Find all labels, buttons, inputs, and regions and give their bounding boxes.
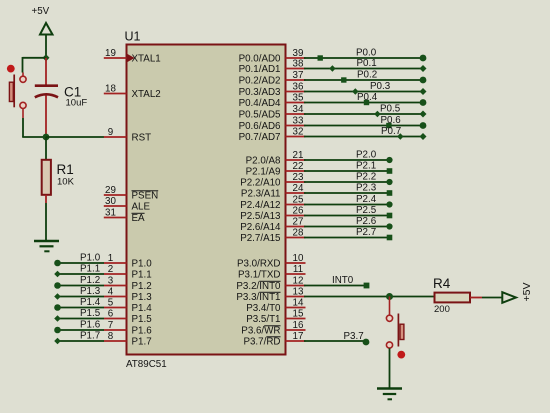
wire P2.0 <box>304 157 393 163</box>
svg-text:17: 17 <box>293 331 304 342</box>
resistor R4 <box>435 293 483 303</box>
wire P3.3 node to SW2 <box>389 297 391 316</box>
pin 4 stub (left) <box>104 286 127 297</box>
pin 36 stub (right) <box>286 81 306 92</box>
wire P2.6 <box>304 223 393 229</box>
XTAL1 clock input arrow <box>127 54 135 62</box>
net label P0.4 <box>357 92 378 103</box>
svg-text:34: 34 <box>293 104 304 115</box>
net label P0.7 <box>381 126 401 137</box>
label U1 <box>125 30 141 44</box>
svg-text:PSEN: PSEN <box>132 190 159 201</box>
svg-text:21: 21 <box>293 150 304 161</box>
svg-text:P3.7: P3.7 <box>344 331 364 342</box>
net label P2.6 <box>356 216 377 227</box>
svg-text:XTAL1: XTAL1 <box>132 53 161 64</box>
svg-text:7: 7 <box>108 320 113 331</box>
svg-text:R4: R4 <box>433 276 451 291</box>
wire P0.6 <box>304 122 426 129</box>
svg-text:8: 8 <box>108 331 114 342</box>
net label P2.2 <box>356 172 376 183</box>
svg-text:RST: RST <box>132 132 152 143</box>
svg-text:3: 3 <box>108 275 114 286</box>
value 10uF <box>66 97 88 108</box>
svg-text:P1.5: P1.5 <box>80 308 101 319</box>
svg-text:13: 13 <box>293 286 304 297</box>
svg-text:P1.6: P1.6 <box>132 325 153 336</box>
svg-text:P1.5: P1.5 <box>132 314 153 325</box>
pin 16 stub (right) <box>286 320 306 331</box>
wire P3.3 to R4 <box>304 296 434 298</box>
svg-text:11: 11 <box>293 264 303 275</box>
net label P2.1 <box>356 161 376 172</box>
svg-text:24: 24 <box>293 183 304 194</box>
svg-text:10: 10 <box>293 253 304 264</box>
wire +5V node to reset button <box>23 57 47 73</box>
svg-text:P2.7/A15: P2.7/A15 <box>240 233 281 244</box>
svg-text:28: 28 <box>293 227 304 238</box>
wire SW1 to RST node <box>22 118 46 137</box>
wire P1.1 <box>54 271 104 278</box>
wire P0.5 <box>304 111 427 118</box>
svg-text:P1.0: P1.0 <box>80 253 101 264</box>
svg-text:23: 23 <box>293 172 304 183</box>
wire P0.2 <box>304 77 426 84</box>
net label P0.6 <box>381 115 402 126</box>
net label P1.1 <box>80 264 100 275</box>
svg-text:P1.1: P1.1 <box>80 264 100 275</box>
svg-text:P0.5/AD5: P0.5/AD5 <box>239 109 281 120</box>
U1 right pin names <box>236 53 281 347</box>
svg-text:38: 38 <box>293 58 304 69</box>
pin 24 stub (right) <box>286 183 306 194</box>
net label INT0 <box>332 275 354 286</box>
svg-text:2: 2 <box>108 264 113 275</box>
svg-text:AT89C51: AT89C51 <box>126 359 167 370</box>
net label P1.0 <box>80 253 101 264</box>
pushbutton SW2 <box>386 314 404 349</box>
svg-text:36: 36 <box>293 81 304 92</box>
svg-text:16: 16 <box>293 320 304 331</box>
wire SW2 to ground <box>389 348 391 388</box>
svg-text:P3.6/WR: P3.6/WR <box>241 325 280 336</box>
label AT89C51 <box>126 359 167 370</box>
svg-text:19: 19 <box>105 48 116 59</box>
pin 1 stub (left) <box>104 253 127 264</box>
svg-text:P0.4: P0.4 <box>357 92 378 103</box>
svg-text:P0.3: P0.3 <box>370 81 391 92</box>
svg-text:P2.1: P2.1 <box>356 161 376 172</box>
pin 19 stub (left) <box>104 48 127 59</box>
svg-text:4: 4 <box>108 286 114 297</box>
svg-text:EA: EA <box>132 213 146 224</box>
svg-text:ALE: ALE <box>132 201 151 212</box>
value 200 <box>434 304 450 315</box>
junction RST node <box>43 134 50 141</box>
actuator dot SW1 <box>7 65 15 73</box>
wire P1.7 <box>54 338 104 345</box>
net label P0.5 <box>380 104 401 115</box>
svg-text:10K: 10K <box>57 177 75 188</box>
ground (right) <box>377 389 402 400</box>
svg-text:P0.2/AD2: P0.2/AD2 <box>239 75 281 86</box>
svg-text:XTAL2: XTAL2 <box>132 89 161 100</box>
wire P2.3 <box>304 190 392 196</box>
label R1 <box>57 162 74 177</box>
svg-text:6: 6 <box>108 308 114 319</box>
svg-text:P2.5: P2.5 <box>356 205 377 216</box>
svg-text:30: 30 <box>105 196 116 207</box>
pin 27 stub (right) <box>286 216 306 227</box>
net label P1.4 <box>80 297 101 308</box>
svg-text:P2.4/A12: P2.4/A12 <box>240 200 280 211</box>
svg-text:22: 22 <box>293 161 304 172</box>
svg-text:31: 31 <box>105 207 116 218</box>
pin 10 stub (right) <box>286 253 306 264</box>
actuator dot SW2 <box>397 351 405 359</box>
pin 11 stub (right) <box>286 264 306 275</box>
pushbutton SW1 (reset) <box>9 73 26 119</box>
svg-text:P2.3/A11: P2.3/A11 <box>241 188 281 199</box>
svg-text:18: 18 <box>105 83 116 94</box>
svg-text:P2.0: P2.0 <box>356 150 377 161</box>
svg-text:29: 29 <box>105 185 116 196</box>
svg-text:P1.6: P1.6 <box>80 320 101 331</box>
svg-text:P0.0/AD0: P0.0/AD0 <box>239 53 281 64</box>
svg-text:P1.7: P1.7 <box>80 331 100 342</box>
wire P2.5 <box>304 213 392 219</box>
svg-text:P1.2: P1.2 <box>80 275 100 286</box>
wire P0.0 <box>304 55 426 62</box>
wire P3.7 (pin 17) <box>304 339 369 346</box>
svg-text:33: 33 <box>293 115 304 126</box>
U1 left pin names <box>132 53 161 347</box>
pin 26 stub (right) <box>286 205 306 216</box>
svg-text:26: 26 <box>293 205 304 216</box>
pin 15 stub (right) <box>286 308 306 319</box>
pin 37 stub (right) <box>286 70 306 81</box>
net label P1.2 <box>80 275 100 286</box>
capacitor C1 <box>35 58 58 137</box>
svg-text:P0.5: P0.5 <box>380 104 401 115</box>
net label P2.7 <box>356 227 376 238</box>
svg-text:35: 35 <box>293 92 304 103</box>
pin 39 stub (right) <box>286 48 306 59</box>
pin 6 stub (left) <box>104 308 127 319</box>
svg-text:P1.1: P1.1 <box>132 269 152 280</box>
wire P1.6 <box>54 327 104 334</box>
pin 32 stub (right) <box>286 126 306 137</box>
svg-text:P2.2: P2.2 <box>356 172 376 183</box>
pin 34 stub (right) <box>286 104 306 115</box>
svg-text:P1.4: P1.4 <box>80 297 101 308</box>
pin 31 stub (left) <box>104 207 127 218</box>
pin 21 stub (right) <box>286 150 306 161</box>
svg-text:P1.3: P1.3 <box>80 286 101 297</box>
wire R4 to +5V arrow <box>482 297 502 299</box>
net label P1.6 <box>80 320 101 331</box>
svg-text:27: 27 <box>293 216 304 227</box>
svg-text:P0.6/AD6: P0.6/AD6 <box>239 121 281 132</box>
net label P1.5 <box>80 308 101 319</box>
svg-text:P1.3: P1.3 <box>132 292 153 303</box>
svg-text:P0.1: P0.1 <box>357 58 377 69</box>
wire P0.3 <box>304 88 427 95</box>
pin 30 stub (left) <box>104 196 127 207</box>
wire P1.4 <box>54 304 104 311</box>
svg-text:32: 32 <box>293 126 304 137</box>
svg-text:12: 12 <box>293 275 304 286</box>
pin 18 stub (left) <box>104 83 127 94</box>
resistor R1 <box>42 137 51 203</box>
net label P1.3 <box>80 286 101 297</box>
svg-text:37: 37 <box>293 70 304 81</box>
svg-text:P0.4/AD4: P0.4/AD4 <box>239 98 281 109</box>
label +5V (top left) <box>32 6 50 17</box>
svg-text:P0.0: P0.0 <box>356 48 377 59</box>
pin 3 stub (left) <box>104 275 127 286</box>
wire P0.1 <box>304 65 427 72</box>
svg-text:P3.2/INT0: P3.2/INT0 <box>236 281 281 292</box>
svg-text:P0.7/AD7: P0.7/AD7 <box>239 132 281 143</box>
pin 14 stub (right) <box>286 297 306 308</box>
svg-text:U1: U1 <box>125 30 141 44</box>
net label P3.7 <box>344 331 364 342</box>
svg-text:P3.7/RD: P3.7/RD <box>243 336 280 347</box>
pin 33 stub (right) <box>286 115 306 126</box>
svg-text:P3.3/INT1: P3.3/INT1 <box>236 292 280 303</box>
svg-text:P3.0/RXD: P3.0/RXD <box>237 258 281 269</box>
svg-text:P2.6/A14: P2.6/A14 <box>240 222 281 233</box>
svg-text:+5V: +5V <box>521 283 533 302</box>
wire P2.4 <box>304 201 393 207</box>
svg-text:P3.5/T1: P3.5/T1 <box>246 314 280 325</box>
pin 23 stub (right) <box>286 172 306 183</box>
value 10K <box>57 177 75 188</box>
svg-text:200: 200 <box>434 304 450 315</box>
svg-text:P3.1/TXD: P3.1/TXD <box>238 269 280 280</box>
svg-text:P1.4: P1.4 <box>132 303 153 314</box>
svg-text:P2.2/A10: P2.2/A10 <box>240 177 281 188</box>
ground (left) <box>34 241 59 251</box>
svg-text:P1.0: P1.0 <box>132 258 153 269</box>
IC U1 AT89C51 body <box>127 45 286 355</box>
svg-text:15: 15 <box>293 308 304 319</box>
svg-text:10uF: 10uF <box>66 97 88 108</box>
svg-text:9: 9 <box>108 127 113 138</box>
svg-text:R1: R1 <box>57 162 74 177</box>
wire P2.7 <box>304 235 392 241</box>
net label P2.5 <box>356 205 377 216</box>
net label P1.7 <box>80 331 100 342</box>
svg-text:P2.4: P2.4 <box>356 194 377 205</box>
svg-text:5: 5 <box>108 297 114 308</box>
wire P2.1 <box>304 168 392 174</box>
power +5V terminal (right) <box>502 292 516 303</box>
pin 13 stub (right) <box>286 286 306 297</box>
junction P3.3 node <box>386 293 393 300</box>
svg-text:P0.6: P0.6 <box>381 115 402 126</box>
wire P0.4 <box>304 99 426 106</box>
wire INT0 (pin 12) <box>304 283 369 289</box>
wire P1.3 <box>54 293 104 300</box>
pin 9 stub (left) <box>104 127 127 138</box>
pin 29 stub (left) <box>104 185 127 196</box>
label +5V (right) <box>521 283 533 302</box>
svg-text:+5V: +5V <box>32 6 50 17</box>
svg-text:P0.1/AD1: P0.1/AD1 <box>239 64 281 75</box>
pin 12 stub (right) <box>286 275 306 286</box>
label R4 <box>433 276 451 291</box>
svg-text:P0.7: P0.7 <box>381 126 401 137</box>
svg-text:P2.5/A13: P2.5/A13 <box>240 211 281 222</box>
svg-text:25: 25 <box>293 194 304 205</box>
pin 7 stub (left) <box>104 320 127 331</box>
svg-text:P2.3: P2.3 <box>356 183 377 194</box>
pin 22 stub (right) <box>286 161 306 172</box>
svg-text:P3.4/T0: P3.4/T0 <box>246 303 281 314</box>
power +5V terminal (top left) <box>40 23 53 58</box>
svg-text:P1.2: P1.2 <box>132 281 152 292</box>
pin 25 stub (right) <box>286 194 306 205</box>
svg-text:1: 1 <box>108 253 113 264</box>
svg-text:14: 14 <box>293 297 304 308</box>
svg-text:P1.7: P1.7 <box>132 336 152 347</box>
svg-text:P2.0/A8: P2.0/A8 <box>246 155 281 166</box>
svg-text:P0.2: P0.2 <box>357 70 377 81</box>
junction +5V node <box>43 54 50 61</box>
svg-text:P0.3/AD3: P0.3/AD3 <box>239 87 281 98</box>
wire P1.2 <box>54 282 104 289</box>
wire P1.0 <box>54 260 104 267</box>
svg-text:INT0: INT0 <box>332 275 354 286</box>
pin 35 stub (right) <box>286 92 306 103</box>
pin 17 stub (right) <box>286 331 306 342</box>
pin 28 stub (right) <box>286 227 306 238</box>
svg-text:P2.7: P2.7 <box>356 227 376 238</box>
svg-text:P2.1/A9: P2.1/A9 <box>246 166 281 177</box>
label C1 <box>64 85 81 100</box>
net label P2.3 <box>356 183 377 194</box>
pin 8 stub (left) <box>104 331 127 342</box>
wire P0.7 <box>304 133 427 140</box>
net label P2.0 <box>356 150 377 161</box>
wire P1.5 <box>54 315 104 322</box>
wire P2.2 <box>304 179 393 185</box>
pin 2 stub (left) <box>104 264 127 275</box>
net label P0.2 <box>357 70 377 81</box>
wire R1 to ground <box>45 203 47 241</box>
pin 38 stub (right) <box>286 58 306 69</box>
net label P0.1 <box>357 58 377 69</box>
net label P0.0 <box>356 48 377 59</box>
net label P0.3 <box>370 81 391 92</box>
pin 5 stub (left) <box>104 297 127 308</box>
svg-text:39: 39 <box>293 48 304 59</box>
net label P2.4 <box>356 194 377 205</box>
wire RST node to pin 9 <box>46 136 104 138</box>
svg-text:P2.6: P2.6 <box>356 216 377 227</box>
